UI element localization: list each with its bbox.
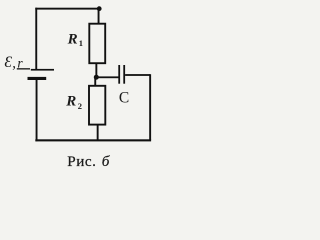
paper background — [0, 0, 157, 174]
wire: capacitor branch left segment — [96, 76, 119, 78]
svg-text:,: , — [12, 56, 16, 72]
svg-text:r: r — [17, 55, 23, 70]
wire: stub from middle node to R2 top — [94, 77, 96, 86]
wire: capacitor branch right segment — [125, 74, 150, 76]
wire: left vertical upper (corner down to battery top plate) — [35, 8, 37, 70]
resistor R1 — [89, 24, 105, 64]
svg-text:1: 1 — [79, 38, 83, 48]
svg-text:б: б — [102, 153, 111, 170]
svg-text:C: C — [119, 89, 129, 106]
wire: stub from top node down to R1 — [98, 9, 100, 25]
wire: bottom horizontal — [35, 139, 151, 141]
wire: left vertical lower (battery to bottom wire) — [36, 80, 38, 141]
svg-text:Ɛ: Ɛ — [4, 54, 12, 71]
capacitor C: left plate — [118, 65, 120, 84]
node: middle junction dot — [94, 75, 99, 80]
wire: stub from R2 bottom to bottom wire — [97, 125, 99, 141]
svg-text:Рис.: Рис. — [67, 153, 96, 170]
battery: bottom plate (short, thick) — [28, 77, 47, 80]
svg-text:R: R — [65, 93, 76, 109]
wire: top horizontal from left corner to node — [35, 8, 99, 10]
capacitor C: right plate — [123, 65, 125, 84]
resistor R2 — [89, 86, 105, 125]
wire: stub from R1 bottom to middle node — [95, 63, 97, 77]
svg-text:R: R — [67, 31, 78, 47]
battery: EMF source, top plate (long, thin) — [31, 69, 54, 71]
node: top junction dot — [97, 6, 102, 11]
svg-text:2: 2 — [78, 101, 82, 111]
wire: right vertical (capacitor branch down to bottom wire) — [149, 74, 151, 140]
